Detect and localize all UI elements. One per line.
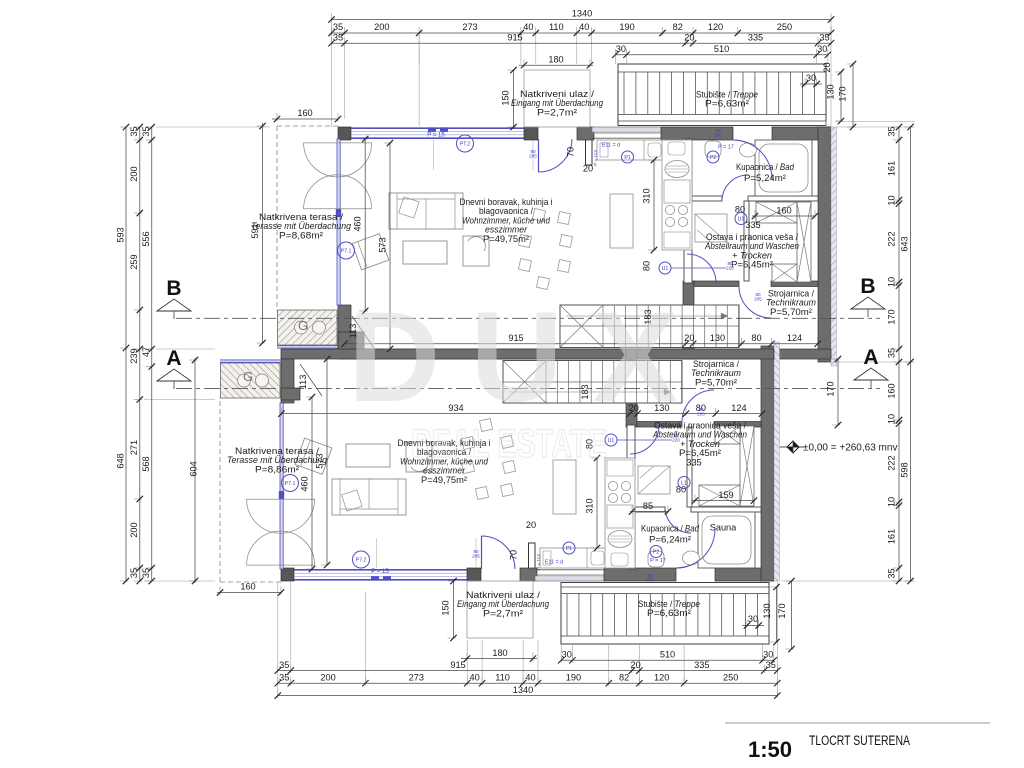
exterior staircase top xyxy=(561,583,769,645)
entry door leaf and arc xyxy=(538,139,540,172)
svg-text:35: 35 xyxy=(887,348,897,358)
svg-text:190: 190 xyxy=(566,672,581,682)
terrace paving area G xyxy=(221,363,281,398)
window projection lines xyxy=(376,538,378,568)
svg-text:20: 20 xyxy=(583,164,593,174)
svg-text:80: 80 xyxy=(751,333,761,343)
label U1 upper xyxy=(659,262,671,274)
dim 915 + 20-130-80-124 upper xyxy=(345,343,818,345)
svg-text:205: 205 xyxy=(714,133,722,138)
svg-text:Kupaonica / Bad: Kupaonica / Bad xyxy=(736,162,795,172)
svg-text:220: 220 xyxy=(726,266,734,271)
svg-text:250: 250 xyxy=(777,22,792,32)
wall segment top xyxy=(577,127,594,140)
svg-text:190: 190 xyxy=(619,22,634,32)
dim 573 upper xyxy=(389,143,391,349)
terrace double door bowtie arcs xyxy=(304,143,372,177)
label PT.1 lower xyxy=(282,475,299,492)
wall segment top xyxy=(520,568,537,581)
bath partition wall right xyxy=(748,196,818,201)
svg-text:556: 556 xyxy=(141,231,151,246)
svg-text:REAL ESTATE: REAL ESTATE xyxy=(411,422,607,466)
right wall insulation hatch xyxy=(774,342,780,581)
label PT.2 lower xyxy=(353,551,370,568)
svg-text:160: 160 xyxy=(297,108,312,118)
extension lines bottom xyxy=(364,592,366,681)
dim 310 lower kitchen xyxy=(596,458,598,548)
interior wall ostava-strojarnica left xyxy=(637,422,682,428)
svg-text:205: 205 xyxy=(754,297,762,302)
svg-text:915: 915 xyxy=(507,32,522,42)
window mullion marks xyxy=(428,127,436,131)
svg-text:170: 170 xyxy=(825,381,835,396)
terrace dashed boundary xyxy=(277,125,338,127)
svg-text:35: 35 xyxy=(279,660,289,670)
svg-text:P=6,45m²: P=6,45m² xyxy=(679,448,721,458)
dim row3 bottom xyxy=(278,670,778,672)
kitchen window strip xyxy=(535,576,604,581)
kitchen-ostava door stub and arc xyxy=(627,425,635,459)
dim 460 lower xyxy=(311,397,313,569)
svg-text:B: B xyxy=(166,277,181,300)
dim col right outer 643-598 xyxy=(910,127,912,581)
svg-text:222: 222 xyxy=(887,455,897,470)
dim col left inner xyxy=(151,127,153,581)
svg-text:120: 120 xyxy=(708,22,723,32)
left wall lower stub xyxy=(338,305,351,349)
bath door arc xyxy=(722,175,748,201)
svg-text:35: 35 xyxy=(141,126,151,136)
svg-text:E11 = d: E11 = d xyxy=(545,560,563,566)
dim 604 lower terrace xyxy=(194,358,196,583)
UPPER UNIT geometry xyxy=(277,64,837,366)
svg-text:200: 200 xyxy=(129,522,139,537)
terrace paving area G xyxy=(278,310,338,345)
strojarnica door arc xyxy=(682,390,714,422)
svg-text:40: 40 xyxy=(579,22,589,32)
extension lines right xyxy=(825,121,827,127)
dim 310 upper kitchen xyxy=(653,160,655,250)
svg-text:DUX: DUX xyxy=(348,286,708,429)
dim 85 lower xyxy=(630,511,668,513)
svg-text:85: 85 xyxy=(643,501,653,511)
svg-text:160: 160 xyxy=(887,383,897,398)
strojarnica door arc xyxy=(739,286,771,318)
stair door arc overlay xyxy=(733,140,772,179)
kitchen stove burners xyxy=(665,205,674,214)
interior staircase xyxy=(503,361,682,404)
svg-text:P=6,45m²: P=6,45m² xyxy=(731,260,773,270)
dim 934 + 20-130-80-124 lower xyxy=(282,413,763,415)
dim col left outer 593-648 xyxy=(125,127,127,581)
svg-text:47: 47 xyxy=(141,347,151,357)
svg-text:P1: P1 xyxy=(566,546,572,552)
right wall xyxy=(761,346,774,581)
dim col right inner xyxy=(898,127,900,581)
svg-text:20: 20 xyxy=(822,62,832,72)
bath partition wall left xyxy=(692,196,722,201)
kitchen fridge xyxy=(664,180,690,203)
label U1 lower xyxy=(605,434,617,446)
svg-text:P=6,63m²: P=6,63m² xyxy=(705,99,749,109)
terrace double door bowtie arcs xyxy=(247,531,315,565)
svg-text:82: 82 xyxy=(673,22,683,32)
terrace blue edge xyxy=(220,361,281,363)
lower wall foot with 113 leader xyxy=(281,388,300,400)
toilet xyxy=(648,551,664,567)
svg-text:P2: P2 xyxy=(710,155,716,161)
svg-text:222: 222 xyxy=(887,231,897,246)
kitchen boiler xyxy=(608,531,632,548)
extension lines top xyxy=(418,35,420,64)
window mullion marks xyxy=(371,576,379,580)
label P2 upper xyxy=(707,151,719,163)
svg-text:35: 35 xyxy=(129,568,139,578)
svg-text:A: A xyxy=(863,346,878,369)
svg-text:40: 40 xyxy=(523,22,533,32)
dim 591 upper terrace xyxy=(262,123,264,343)
svg-text:P=49,75m²: P=49,75m² xyxy=(483,234,529,244)
svg-text:B: B xyxy=(860,275,875,298)
svg-text:310: 310 xyxy=(584,498,594,513)
kitchen corner sink xyxy=(668,142,685,155)
svg-text:335: 335 xyxy=(745,220,760,230)
dining chairs xyxy=(475,486,488,499)
svg-text:G: G xyxy=(298,318,308,333)
svg-text:335: 335 xyxy=(694,660,709,670)
kitchen counters xyxy=(540,548,607,568)
dim 150 upper entrance xyxy=(513,70,515,127)
label U1 upper2 xyxy=(735,213,747,225)
svg-text:510: 510 xyxy=(660,650,675,660)
washer dryer box xyxy=(756,202,797,223)
svg-text:220: 220 xyxy=(672,438,680,443)
svg-text:Sauna: Sauna xyxy=(710,523,737,533)
equipment box xyxy=(715,426,740,444)
svg-text:180: 180 xyxy=(492,648,507,658)
sofa xyxy=(389,193,463,229)
entry canopy box xyxy=(467,581,533,638)
stair door arc overlay xyxy=(676,529,715,568)
dim row3 top xyxy=(332,42,832,44)
bath door arc xyxy=(665,507,691,533)
bathtub xyxy=(755,140,812,196)
dim 160 lower terrace xyxy=(217,592,281,594)
dim 460 upper xyxy=(364,139,366,311)
interior wall ostava left xyxy=(744,201,749,281)
svg-text:P2: P2 xyxy=(653,549,659,555)
svg-text:80: 80 xyxy=(641,261,651,271)
interior wall ostava left xyxy=(687,427,692,507)
shower xyxy=(695,214,727,242)
svg-text:120: 120 xyxy=(654,672,669,682)
svg-text:Kupaonica / Bad: Kupaonica / Bad xyxy=(641,524,700,534)
dim row2 bottom xyxy=(278,682,778,684)
coffee table xyxy=(346,444,390,467)
interior wall ostava-strojarnica left xyxy=(694,281,739,287)
svg-text:170: 170 xyxy=(777,603,787,618)
svg-text:160: 160 xyxy=(240,582,255,592)
wall post top-mid xyxy=(467,568,481,581)
kitchen-ostava door stub and arc xyxy=(684,249,692,283)
svg-text:30: 30 xyxy=(817,44,827,54)
svg-text:P = 15: P = 15 xyxy=(371,569,389,575)
svg-text:10: 10 xyxy=(887,195,897,205)
svg-text:460: 460 xyxy=(353,216,363,231)
svg-text:124: 124 xyxy=(787,333,802,343)
svg-text:113: 113 xyxy=(298,375,308,390)
svg-text:P=6,24m²: P=6,24m² xyxy=(649,535,691,545)
svg-text:35: 35 xyxy=(141,568,151,578)
window band top (PT.2) xyxy=(294,579,467,581)
stair direction arrow xyxy=(509,391,671,393)
duct shaft xyxy=(740,426,754,506)
svg-text:70: 70 xyxy=(509,550,519,560)
svg-text:P = 17: P = 17 xyxy=(650,558,666,564)
kitchen island xyxy=(610,194,633,248)
svg-text:604: 604 xyxy=(189,461,199,476)
svg-text:35: 35 xyxy=(766,660,776,670)
svg-text:160: 160 xyxy=(776,205,791,215)
wall segment top-right xyxy=(715,568,774,581)
extension lines left xyxy=(156,126,270,128)
exterior staircase top xyxy=(618,64,826,126)
svg-text:1340: 1340 xyxy=(572,9,592,19)
svg-text:40: 40 xyxy=(525,672,535,682)
dim row4 top stairs 30-510-30 xyxy=(615,54,828,56)
svg-text:35: 35 xyxy=(887,126,897,136)
dining chairs xyxy=(532,208,545,221)
side chair xyxy=(406,442,432,472)
svg-text:335: 335 xyxy=(686,458,701,468)
dim 180 lower entrance xyxy=(461,658,537,660)
svg-text:U1: U1 xyxy=(738,216,745,222)
coffee table xyxy=(403,241,447,264)
svg-text:U1: U1 xyxy=(608,438,615,444)
svg-text:G: G xyxy=(243,369,253,384)
svg-text:P=2,7m²: P=2,7m² xyxy=(537,107,577,117)
window band top (PT.2) xyxy=(351,127,524,129)
shower xyxy=(638,466,670,494)
svg-text:70: 70 xyxy=(566,147,576,157)
svg-text:239: 239 xyxy=(129,348,139,363)
svg-text:273: 273 xyxy=(462,22,477,32)
svg-text:P=8,68m²: P=8,68m² xyxy=(279,230,323,240)
left glass wall (PT.1) xyxy=(280,403,283,569)
bath partition wall left xyxy=(635,507,665,512)
svg-text:P=2,7m²: P=2,7m² xyxy=(483,608,523,618)
svg-text:P7.1: P7.1 xyxy=(285,481,296,487)
svg-text:124: 124 xyxy=(731,403,746,413)
terrace dashed boundary xyxy=(220,581,281,583)
svg-text:180: 180 xyxy=(548,54,563,64)
washer dryer box xyxy=(699,485,740,506)
wall segment top right-of-kitchen xyxy=(661,127,733,140)
svg-text:P=8,86m²: P=8,86m² xyxy=(255,464,299,474)
dim 159 lower sauna xyxy=(692,500,755,502)
svg-text:35: 35 xyxy=(333,22,343,32)
entry door leaf and arc xyxy=(481,536,483,569)
middle party wall xyxy=(338,349,831,359)
svg-text:593: 593 xyxy=(116,227,126,242)
svg-text:10: 10 xyxy=(887,497,897,507)
svg-text:82: 82 xyxy=(619,672,629,682)
kitchen counters xyxy=(597,140,664,160)
dim 573 lower xyxy=(326,359,328,565)
svg-text:P = 113: P = 113 xyxy=(536,554,541,570)
stair entry door arc xyxy=(733,140,772,179)
washbasin xyxy=(740,143,757,157)
svg-text:35: 35 xyxy=(887,568,897,578)
svg-text:PT.2: PT.2 xyxy=(460,141,470,147)
svg-text:30: 30 xyxy=(616,44,626,54)
svg-text:20: 20 xyxy=(526,520,536,530)
svg-text:L1: L1 xyxy=(681,480,687,486)
dim 20-130-170 top stairs xyxy=(840,72,842,121)
label P1 lower xyxy=(563,542,575,554)
svg-text:271: 271 xyxy=(129,440,139,455)
svg-text:110: 110 xyxy=(549,22,564,32)
duct shaft xyxy=(797,202,811,282)
svg-text:150: 150 xyxy=(501,90,511,105)
section line B-B xyxy=(176,317,880,319)
dim 130-170 bottom stairs xyxy=(776,587,778,642)
svg-text:P7.1: P7.1 xyxy=(341,248,352,254)
dim 160 upper tub xyxy=(752,215,815,217)
entry door jamb xyxy=(529,543,536,569)
svg-text:TLOCRT SUTERENA: TLOCRT SUTERENA xyxy=(809,733,910,748)
wall post top-mid xyxy=(524,127,538,140)
dim 160 upper terrace xyxy=(272,118,338,120)
svg-text:150: 150 xyxy=(441,600,451,615)
svg-text:110: 110 xyxy=(495,672,510,682)
left wall lower stub xyxy=(281,359,294,403)
label PT.1 upper xyxy=(338,242,355,259)
washbasin xyxy=(683,551,700,565)
terrace blue edge xyxy=(277,345,338,347)
svg-text:30: 30 xyxy=(562,650,572,660)
wall segment top right-of-kitchen xyxy=(604,568,676,581)
svg-text:250: 250 xyxy=(723,672,738,682)
svg-text:P = 15: P = 15 xyxy=(427,133,445,139)
LOWER UNIT geometry (mirrored) xyxy=(220,342,780,644)
window projection lines xyxy=(433,140,435,170)
wall segment top-right xyxy=(772,127,831,140)
entry canopy box xyxy=(524,70,590,127)
dim row 30-510-30 bottom stairs xyxy=(561,659,774,661)
svg-text:273: 273 xyxy=(409,672,424,682)
svg-text:200: 200 xyxy=(320,672,335,682)
svg-text:568: 568 xyxy=(141,456,151,471)
armchair xyxy=(352,234,389,270)
svg-text:35: 35 xyxy=(129,126,139,136)
svg-text:10: 10 xyxy=(887,414,897,424)
entry door jamb xyxy=(586,139,593,165)
svg-text:161: 161 xyxy=(887,161,897,176)
interior wall stairs-strojarnica xyxy=(683,281,694,359)
stair entry door arc xyxy=(676,529,715,568)
dim total 1340 top xyxy=(332,19,832,21)
left glass wall (PT.1) xyxy=(337,139,340,305)
dim 150 lower entrance xyxy=(453,581,455,638)
interior staircase xyxy=(560,305,739,348)
svg-text:573: 573 xyxy=(377,237,387,252)
svg-text:161: 161 xyxy=(887,529,897,544)
dim col left middle xyxy=(139,127,141,581)
svg-text:40: 40 xyxy=(469,672,479,682)
toilet xyxy=(705,141,721,157)
svg-text:159: 159 xyxy=(718,490,733,500)
svg-text:±0,00 = +260,63 mnv: ±0,00 = +260,63 mnv xyxy=(803,443,897,454)
svg-text:P = 113: P = 113 xyxy=(593,150,598,166)
svg-text:460: 460 xyxy=(299,476,309,491)
kitchen boiler xyxy=(665,161,689,178)
svg-text:200: 200 xyxy=(374,22,389,32)
svg-text:35: 35 xyxy=(279,672,289,682)
bath partition wall right xyxy=(691,507,761,512)
upper wall foot with 113 leader xyxy=(338,332,364,349)
svg-text:10: 10 xyxy=(887,277,897,287)
svg-text:U1: U1 xyxy=(662,266,669,272)
elevation marker xyxy=(787,441,799,453)
svg-text:130: 130 xyxy=(710,333,725,343)
svg-text:915: 915 xyxy=(450,660,465,670)
dim row2 top xyxy=(332,32,832,34)
side chair xyxy=(463,236,489,266)
dim 170 lower strojarnica xyxy=(837,359,839,425)
svg-text:1:50: 1:50 xyxy=(748,737,792,762)
svg-text:205: 205 xyxy=(472,554,480,559)
middle party wall xyxy=(281,349,774,359)
svg-text:130: 130 xyxy=(762,603,772,618)
svg-text:35: 35 xyxy=(819,32,829,42)
svg-text:205: 205 xyxy=(529,154,537,159)
svg-text:170: 170 xyxy=(887,309,897,324)
svg-text:30: 30 xyxy=(763,650,773,660)
wall post top-left xyxy=(338,127,351,140)
svg-text:648: 648 xyxy=(116,453,126,468)
label PT.2 upper xyxy=(457,135,474,152)
stair direction arrow xyxy=(566,315,728,317)
svg-text:170: 170 xyxy=(838,86,848,101)
svg-text:20: 20 xyxy=(630,660,640,670)
svg-text:335: 335 xyxy=(748,32,763,42)
right wall insulation hatch xyxy=(831,127,837,366)
svg-text:510: 510 xyxy=(714,44,729,54)
dim total 1340 bottom xyxy=(278,695,778,697)
interior wall ostava-strojarnica right xyxy=(714,422,761,428)
svg-text:200: 200 xyxy=(129,166,139,181)
svg-text:310: 310 xyxy=(641,188,651,203)
kitchen stove burners xyxy=(608,493,617,502)
label L1 lower xyxy=(678,477,690,489)
svg-text:P=5,70m²: P=5,70m² xyxy=(770,307,812,317)
svg-text:P7.2: P7.2 xyxy=(356,557,367,563)
svg-text:P1: P1 xyxy=(624,155,630,161)
svg-text:643: 643 xyxy=(899,236,909,251)
interior wall stairs-strojarnica xyxy=(626,349,637,427)
section line A-A xyxy=(176,388,880,390)
interior wall ostava-strojarnica right xyxy=(771,281,818,287)
svg-text:P=6,63m²: P=6,63m² xyxy=(647,608,691,618)
right wall xyxy=(818,127,831,362)
svg-text:E11 = d: E11 = d xyxy=(602,143,620,149)
svg-text:P=49,75m²: P=49,75m² xyxy=(421,475,467,485)
svg-text:130: 130 xyxy=(826,84,836,99)
svg-text:259: 259 xyxy=(129,254,139,269)
svg-text:20: 20 xyxy=(684,32,694,42)
wall post top-left xyxy=(281,568,294,581)
